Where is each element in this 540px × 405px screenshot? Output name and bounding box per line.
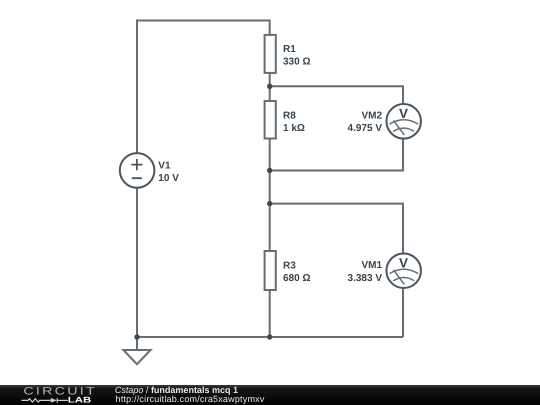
svg-text:VM1: VM1 <box>361 260 382 271</box>
svg-text:VM2: VM2 <box>361 111 382 122</box>
svg-text:V: V <box>399 106 408 121</box>
svg-text:3.383 V: 3.383 V <box>348 273 383 284</box>
svg-text:R1: R1 <box>283 44 296 55</box>
svg-text:V1: V1 <box>158 161 171 172</box>
svg-text:4.975 V: 4.975 V <box>348 123 383 134</box>
svg-text:R8: R8 <box>283 111 296 122</box>
svg-text:LAB: LAB <box>68 396 92 405</box>
svg-text:10 V: 10 V <box>158 173 179 184</box>
svg-text:1 kΩ: 1 kΩ <box>283 123 305 134</box>
svg-text:V: V <box>399 255 408 270</box>
svg-text:R3: R3 <box>283 261 296 272</box>
svg-text:330 Ω: 330 Ω <box>283 56 310 67</box>
svg-text:680 Ω: 680 Ω <box>283 273 310 284</box>
